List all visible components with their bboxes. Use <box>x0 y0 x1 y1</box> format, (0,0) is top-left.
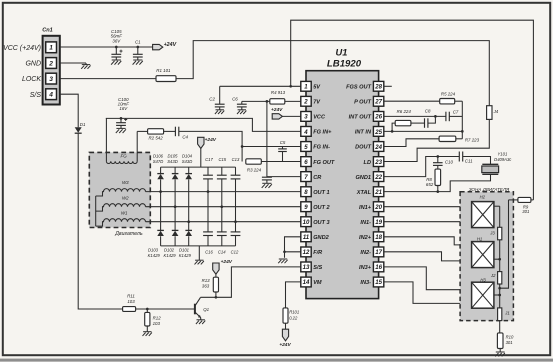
capacitor C100 <box>120 117 123 120</box>
svg-text:21: 21 <box>374 189 382 196</box>
capacitor C13 <box>235 167 237 175</box>
svg-text:R7 223: R7 223 <box>465 137 480 142</box>
pin 17 box <box>373 247 383 257</box>
wire pin20 IN1+ <box>384 206 471 208</box>
wire +24V top rail <box>161 166 236 168</box>
svg-text:FGS OUT: FGS OUT <box>346 85 371 91</box>
wire pin5 row <box>242 146 301 148</box>
hall sensor H3 <box>472 282 494 308</box>
wire FG right lead <box>136 131 138 161</box>
node R8 pin21 <box>436 190 439 193</box>
wire pin25 INT IN <box>384 130 463 132</box>
svg-text:S43D: S43D <box>182 159 192 164</box>
wire OUT3 row (pin10) <box>146 221 301 223</box>
resistor R12 <box>146 309 148 312</box>
wire C8 branch <box>428 116 435 123</box>
svg-text:4: 4 <box>48 92 53 99</box>
svg-text:R1 101: R1 101 <box>156 68 171 73</box>
motor zone box (ZONA DVIGATELYA) <box>460 192 513 321</box>
svg-text:C11: C11 <box>465 158 473 163</box>
wire crystal to pin21 XTAL <box>384 174 491 191</box>
svg-text:C6: C6 <box>232 97 238 102</box>
svg-text:S43D: S43D <box>167 159 177 164</box>
svg-text:D1: D1 <box>80 122 86 127</box>
svg-text:K1429: K1429 <box>179 253 192 258</box>
wire R4 to C6 <box>242 100 270 102</box>
wire J4 to pin23 LD <box>384 119 490 161</box>
wire pin16 IN3+ <box>384 267 472 290</box>
wire OUT2 row (pin9) <box>146 206 301 208</box>
svg-text:W2: W2 <box>122 195 129 200</box>
svg-text:FG IN+: FG IN+ <box>313 130 332 136</box>
wire C8 to R6 <box>411 122 425 124</box>
wire pin7 CR row <box>267 176 301 178</box>
svg-text:C15: C15 <box>218 157 226 162</box>
wire J2 to J1 <box>499 284 501 308</box>
capacitor C8 <box>424 118 426 128</box>
node C105 junction <box>115 46 118 49</box>
svg-text:H3: H3 <box>480 277 486 282</box>
wire C11 to crystal <box>463 157 491 165</box>
resistor R1 <box>156 76 176 82</box>
capacitor C16 <box>203 231 213 233</box>
svg-text:2: 2 <box>303 99 308 106</box>
svg-text:C4: C4 <box>182 135 188 140</box>
svg-text:C5: C5 <box>280 140 286 145</box>
wire 5V pin1 row <box>220 85 301 87</box>
wire pin2 row <box>285 100 301 102</box>
jumper J3 <box>498 227 502 240</box>
capacitor C15 <box>221 167 223 175</box>
wire R7 to node <box>456 138 462 140</box>
pin 20 box <box>373 202 383 212</box>
diode D105 <box>174 167 176 174</box>
node C10 junction <box>436 155 439 158</box>
junction dots phase columns <box>159 190 162 193</box>
svg-text:4: 4 <box>303 129 308 136</box>
svg-text:13: 13 <box>303 264 310 271</box>
wire R5 to node <box>455 100 463 102</box>
jumper J2 <box>498 272 502 284</box>
wire pin18 IN2+ <box>384 237 471 245</box>
svg-text:15: 15 <box>375 279 382 286</box>
wire S/S from Cn1 <box>60 94 78 127</box>
svg-text:J1: J1 <box>504 310 509 315</box>
wire R9 feed <box>531 199 534 201</box>
resistor R8 <box>437 165 439 169</box>
svg-text:16V: 16V <box>119 106 128 111</box>
svg-text:K1429: K1429 <box>148 253 161 258</box>
svg-text:363: 363 <box>202 284 210 289</box>
svg-text:J4: J4 <box>493 109 499 114</box>
svg-text:VCC (+24V): VCC (+24V) <box>3 45 41 52</box>
capacitor C6 <box>241 101 243 104</box>
svg-text:11: 11 <box>303 234 310 241</box>
diode D102 <box>172 229 179 231</box>
svg-text:LOCK: LOCK <box>22 76 41 83</box>
pin 21 box <box>373 187 383 197</box>
wire flag to pin3 <box>282 115 300 117</box>
motor box (Dvigatel) <box>89 152 150 227</box>
wire pin27 P OUT <box>384 100 440 102</box>
svg-text:C17: C17 <box>205 157 213 162</box>
svg-text:301: 301 <box>522 209 529 214</box>
svg-text:XTAL: XTAL <box>356 190 372 196</box>
svg-text:C8: C8 <box>425 109 431 114</box>
svg-text:INT OUT: INT OUT <box>349 115 372 121</box>
svg-text:GND1: GND1 <box>355 175 371 181</box>
node R12 junction <box>146 308 149 311</box>
wire pin14 VM <box>286 282 301 308</box>
svg-text:H2: H2 <box>480 195 486 200</box>
capacitor C4 <box>174 127 176 137</box>
resistor R3 <box>246 159 261 164</box>
svg-text:S47D: S47D <box>153 159 163 164</box>
wire hall supply bus <box>500 200 509 288</box>
svg-text:S/S: S/S <box>313 265 322 271</box>
wire pin26 INT OUT <box>384 115 446 117</box>
svg-text:W3: W3 <box>122 180 129 185</box>
svg-text:FG OUT: FG OUT <box>313 160 335 166</box>
ground (Cn1 GND) <box>85 63 87 65</box>
svg-text:INT IN: INT IN <box>355 130 372 136</box>
wire pin11 GND2 <box>285 237 301 258</box>
ground (R10) <box>499 349 501 353</box>
svg-text:Cn1: Cn1 <box>42 28 53 34</box>
wire R4 node to CR filter <box>266 101 268 177</box>
resistor R13 <box>215 274 217 277</box>
connector Cn1 <box>43 36 60 105</box>
svg-text:F/R: F/R <box>313 250 322 256</box>
svg-text:22: 22 <box>374 174 382 181</box>
pin 15 box <box>373 277 383 287</box>
pin 28 box <box>373 81 383 91</box>
svg-text:+24V: +24V <box>164 42 177 48</box>
svg-text:IN3-: IN3- <box>360 280 371 286</box>
capacitor C10 <box>437 157 439 163</box>
node R13 junction <box>215 296 218 299</box>
svg-text:J2: J2 <box>490 273 496 278</box>
svg-text:17: 17 <box>375 249 382 256</box>
wire 5V riser and top rail to hall supply <box>291 20 534 200</box>
svg-text:Двигатель: Двигатель <box>114 231 143 237</box>
pin 7 box <box>301 172 311 182</box>
svg-text:R5 224: R5 224 <box>441 92 456 97</box>
svg-text:C14: C14 <box>218 249 226 254</box>
power flag +24V (rail) <box>198 137 204 148</box>
pin 16 box <box>373 262 383 272</box>
svg-text:R3 224: R3 224 <box>247 167 262 172</box>
svg-text:OUT 2: OUT 2 <box>313 205 330 211</box>
svg-text:D104: D104 <box>182 153 193 158</box>
pin 5 box <box>301 142 311 152</box>
capacitor C5 <box>282 147 284 149</box>
pin 27 box <box>373 96 383 106</box>
pin 23 box <box>373 157 383 167</box>
wire pin12 F/R <box>285 251 301 253</box>
svg-text:W1: W1 <box>121 210 128 215</box>
svg-text:IN1-: IN1- <box>360 220 371 226</box>
power flag +24V (top) <box>153 44 163 49</box>
pin 4 box <box>301 127 311 137</box>
resistor R2 <box>148 129 164 134</box>
wire bottom rail <box>161 245 236 247</box>
crystal Y101 <box>482 163 498 165</box>
pin 8 box <box>301 187 311 197</box>
svg-text:28: 28 <box>374 84 382 91</box>
resistor R9 <box>518 197 531 202</box>
svg-text:C13: C13 <box>232 157 240 162</box>
svg-text:2: 2 <box>48 60 53 67</box>
ground (bottom rail) <box>198 246 200 260</box>
svg-text:10: 10 <box>303 219 310 226</box>
wire winding star bus <box>95 196 97 226</box>
svg-text:LB1920: LB1920 <box>327 59 362 70</box>
wire hall chain column <box>494 205 500 207</box>
svg-text:GND: GND <box>25 61 41 68</box>
wire pin17 IN2- <box>384 252 471 261</box>
svg-text:IN2+: IN2+ <box>359 235 372 241</box>
svg-text:VM: VM <box>313 280 322 286</box>
svg-text:C16: C16 <box>205 249 213 254</box>
svg-text:103: 103 <box>127 299 135 304</box>
wire J3 to J2 <box>499 240 501 272</box>
svg-text:K1429: K1429 <box>164 253 177 258</box>
pin 24 box <box>373 142 383 152</box>
wire pin13 S/S to Q1 collector <box>201 267 301 297</box>
wire pin19 IN1- <box>384 221 471 223</box>
svg-text:652: 652 <box>426 182 434 187</box>
wire pin24 DOUT <box>384 139 439 147</box>
pin 2 box <box>301 96 311 106</box>
svg-text:C2: C2 <box>209 97 215 102</box>
pin 25 box <box>373 127 383 137</box>
svg-text:P OUT: P OUT <box>354 100 371 106</box>
pin 1 box <box>301 81 311 91</box>
svg-text:DOUT: DOUT <box>355 145 371 151</box>
svg-text:J3: J3 <box>489 230 495 235</box>
svg-text:R4 913: R4 913 <box>271 90 286 95</box>
pin 3 box <box>301 112 311 122</box>
pin 6 box <box>301 157 311 167</box>
resistor R6 <box>395 120 411 125</box>
wire pin22 GND1 <box>384 157 459 177</box>
svg-text:R13: R13 <box>202 278 211 283</box>
resistor R7 <box>439 136 456 141</box>
capacitor C17 <box>207 167 209 175</box>
capacitor C1 <box>137 47 139 54</box>
svg-text:19: 19 <box>375 219 382 226</box>
svg-text:18: 18 <box>375 234 382 241</box>
svg-text:Y101: Y101 <box>498 151 508 156</box>
pin 14 box <box>301 277 311 287</box>
svg-text:IN1+: IN1+ <box>359 205 372 211</box>
svg-text:VCC: VCC <box>313 115 326 121</box>
svg-text:D101: D101 <box>179 248 189 253</box>
wire D1 to R11 <box>78 134 123 309</box>
jumper J1 <box>498 308 502 321</box>
wire R6 to pin25 row <box>392 123 395 131</box>
svg-text:IN2-: IN2- <box>360 250 371 256</box>
ground (Q1 emitter) <box>196 320 205 324</box>
svg-text:+24V: +24V <box>271 107 283 113</box>
svg-text:25: 25 <box>374 129 382 136</box>
wire R3 to pin6 FG OUT <box>261 161 301 163</box>
pin 9 box <box>301 202 311 212</box>
svg-text:14: 14 <box>303 279 310 286</box>
hall sensor H1 <box>472 242 494 268</box>
capacitor C7 <box>445 112 447 122</box>
wire pin4 FG IN+ row <box>106 118 301 131</box>
svg-text:C12: C12 <box>231 249 239 254</box>
diode D101 <box>185 229 192 231</box>
hall sensor H2 <box>472 202 494 228</box>
jumper J4 <box>487 106 492 120</box>
svg-text:+24V: +24V <box>221 259 233 265</box>
pin 22 box <box>373 172 383 182</box>
bottom scan strip <box>0 359 553 362</box>
pin 12 box <box>301 247 311 257</box>
svg-text:GND2: GND2 <box>313 235 329 241</box>
svg-text:+24V: +24V <box>279 342 291 348</box>
pin 10 box <box>301 217 311 227</box>
svg-text:D103: D103 <box>148 248 159 253</box>
wire OUT1 row (pin8) <box>146 191 301 193</box>
capacitor C11 <box>458 152 460 162</box>
capacitor C105 <box>115 47 117 54</box>
wire node vertical <box>461 101 463 139</box>
svg-text:0.22: 0.22 <box>289 315 298 320</box>
capacitor C14 <box>217 231 227 233</box>
svg-text:C7: C7 <box>453 109 459 114</box>
pin 13 box <box>301 262 311 272</box>
svg-text:FG IN-: FG IN- <box>313 145 330 151</box>
wire LOCK row <box>60 78 156 80</box>
svg-text:H1: H1 <box>477 236 482 241</box>
wire C4 to pin5 FG IN- <box>179 131 242 161</box>
svg-text:OUT 1: OUT 1 <box>313 190 329 196</box>
svg-text:U1: U1 <box>336 48 348 58</box>
svg-text:16: 16 <box>375 264 382 271</box>
svg-text:Q1: Q1 <box>203 307 209 312</box>
svg-text:R11: R11 <box>127 294 135 299</box>
op-amp U1 LB1920 body <box>306 71 379 299</box>
wire column D105 <box>174 179 176 230</box>
svg-text:R2 542: R2 542 <box>149 135 164 140</box>
svg-text:OUT 3: OUT 3 <box>313 220 330 226</box>
transistor Q1 <box>195 297 201 319</box>
wire R11 to Q1 base <box>136 308 195 310</box>
svg-text:1: 1 <box>49 45 53 52</box>
wire FG lead to R2 <box>137 130 147 132</box>
svg-text:C10: C10 <box>445 159 454 164</box>
wire column D106 <box>160 179 162 230</box>
power flag +24V (R101) <box>285 323 287 329</box>
svg-text:D102: D102 <box>164 248 175 253</box>
svg-text:23: 23 <box>374 159 382 166</box>
resistor R10 <box>497 333 503 349</box>
pin 26 box <box>373 112 383 122</box>
diode D106 <box>160 167 162 174</box>
svg-text:26: 26 <box>374 114 382 121</box>
svg-text:FG: FG <box>121 154 128 159</box>
wire LOCK to LD (via J4) <box>176 41 489 106</box>
pin 19 box <box>373 217 383 227</box>
svg-text:+24V: +24V <box>205 137 217 143</box>
svg-text:CR: CR <box>313 175 321 181</box>
svg-text:D409A3c: D409A3c <box>494 157 512 162</box>
ground (GND2/FR) <box>278 259 287 263</box>
svg-text:R101: R101 <box>289 310 299 315</box>
power flag +24V (R13) <box>213 263 219 274</box>
wire pin28 stub <box>384 85 392 87</box>
resistor R101 <box>283 308 288 323</box>
diode D1 <box>75 127 82 133</box>
wire column D104 <box>188 179 190 230</box>
pin 11 box <box>301 232 311 242</box>
svg-text:20: 20 <box>374 204 382 211</box>
svg-text:D106: D106 <box>153 153 164 158</box>
diode D104 <box>188 167 190 174</box>
svg-text:3: 3 <box>49 76 53 83</box>
svg-text:301: 301 <box>506 340 513 345</box>
wire GND row <box>60 62 86 64</box>
resistor R4 <box>270 99 285 104</box>
wire pin15 IN3- <box>384 282 472 304</box>
wire VCC row <box>60 46 153 48</box>
node C1 junction <box>136 46 139 49</box>
wire FG left lead <box>105 118 107 161</box>
svg-text:12: 12 <box>303 249 310 256</box>
svg-text:27: 27 <box>374 99 382 106</box>
pin 18 box <box>373 232 383 242</box>
resistor R5 <box>440 99 455 104</box>
capacitor C2 <box>219 86 221 104</box>
diode D103 <box>157 229 164 231</box>
resistor R11 <box>123 307 136 312</box>
ground (R12) <box>146 326 148 332</box>
svg-text:ЗОНА ДВИГАТЕЛЯ: ЗОНА ДВИГАТЕЛЯ <box>469 187 510 192</box>
capacitor CR to ground <box>262 176 272 178</box>
svg-text:36V: 36V <box>112 38 121 43</box>
svg-text:IN3+: IN3+ <box>359 265 372 271</box>
svg-text:S/S: S/S <box>30 92 42 99</box>
svg-text:C1: C1 <box>135 39 141 44</box>
svg-text:LD: LD <box>364 160 371 166</box>
capacitor C12 <box>231 231 241 233</box>
svg-text:103: 103 <box>153 321 161 326</box>
svg-text:D105: D105 <box>167 153 178 158</box>
svg-text:R6 224: R6 224 <box>397 109 412 114</box>
wire J1 to R10 <box>499 321 501 334</box>
svg-text:24: 24 <box>374 144 382 151</box>
power flag +24V (pin3 VCC) <box>272 114 282 119</box>
svg-text:R10: R10 <box>506 335 514 340</box>
wire R2 to C4 <box>164 130 176 132</box>
